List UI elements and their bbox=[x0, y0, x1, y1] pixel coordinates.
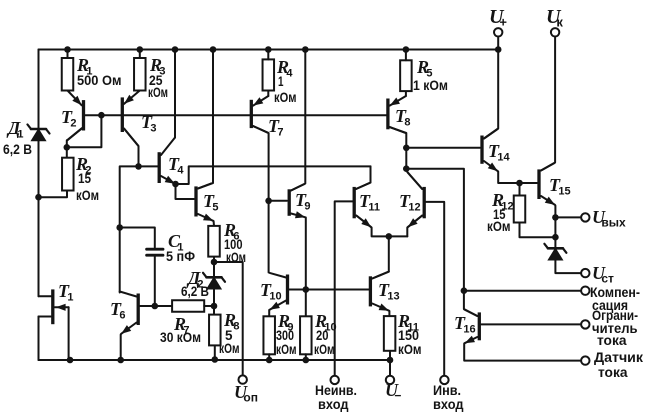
junction dot diff pair tail bbox=[386, 233, 393, 240]
terminal Uk bbox=[551, 28, 559, 36]
terminal current limiter bbox=[581, 320, 589, 328]
transistor T7 bbox=[251, 96, 268, 133]
svg-text:+: + bbox=[499, 15, 507, 30]
junction dot T4 emitter node bbox=[172, 181, 179, 188]
wire T4 base node to T6 collector branch bbox=[120, 166, 158, 292]
svg-text:к: к bbox=[556, 15, 563, 30]
svg-text:1: 1 bbox=[67, 292, 73, 304]
svg-text:тока: тока bbox=[598, 364, 628, 380]
wire T4 collector to top rail bbox=[174, 50, 176, 138]
wire T9 emitter down to R10, with T10 base tap bbox=[305, 218, 307, 317]
wire R12 top lead bbox=[519, 183, 521, 196]
label R4 value bbox=[274, 57, 297, 105]
svg-text:кОм: кОм bbox=[219, 340, 240, 356]
label R9 value bbox=[276, 311, 297, 357]
wire T7 collector down to T10 collector bbox=[253, 126, 269, 273]
label Uk terminal bbox=[546, 6, 563, 30]
wire T9 collector to top rail bbox=[291, 50, 305, 191]
label R6 value bbox=[223, 220, 246, 265]
wire T3 collector down to T4 base node bbox=[124, 129, 139, 167]
resistor R2 bbox=[62, 158, 74, 191]
label T4 bbox=[168, 154, 184, 177]
wire T4 emitter node to second stage bus bbox=[176, 166, 371, 184]
label T8 bbox=[395, 106, 410, 129]
wire R12 bottom to T15 emitter chain bbox=[520, 223, 556, 238]
junction dot T9 base bbox=[265, 198, 272, 205]
svg-text:30 кОм: 30 кОм bbox=[160, 329, 201, 345]
wire bottom bus bbox=[39, 359, 391, 361]
junction dots on top rail bbox=[64, 46, 501, 53]
transistor T4 bbox=[159, 138, 175, 184]
junction dot compensation tap bbox=[461, 287, 468, 294]
svg-text:вых: вых bbox=[601, 216, 626, 230]
wire R4 top lead bbox=[267, 50, 269, 60]
terminal Uop bbox=[239, 375, 247, 383]
svg-text:16: 16 bbox=[463, 324, 475, 336]
wire compensation node to terminal bbox=[464, 290, 581, 292]
label compensation terminal bbox=[590, 284, 640, 313]
wire T10 emitter to R9 top bbox=[268, 310, 270, 316]
transistor T3 bbox=[122, 91, 140, 146]
label T14 bbox=[488, 141, 510, 164]
label T1 bbox=[58, 281, 73, 304]
svg-text:5: 5 bbox=[212, 202, 218, 214]
zener diode D2 bbox=[203, 273, 225, 289]
resistor R5 bbox=[400, 60, 412, 91]
label inverting input terminal bbox=[433, 382, 464, 412]
label T16 bbox=[454, 313, 476, 336]
transistor T15 bbox=[539, 163, 555, 205]
wire R1 top lead bbox=[67, 50, 69, 59]
transistor T11 bbox=[354, 183, 371, 227]
wire T10 base to T13 base bbox=[289, 289, 369, 291]
wire base bus T2-T3-T7-T8 bbox=[84, 114, 388, 116]
terminal U- bbox=[386, 376, 394, 384]
wire left rail from top rail to zener D1 and T1 drain bbox=[38, 50, 40, 297]
svg-text:кОм: кОм bbox=[274, 89, 297, 105]
terminal noninverting input bbox=[331, 376, 339, 384]
resistor R8 bbox=[209, 315, 221, 346]
svg-text:8: 8 bbox=[404, 117, 410, 129]
svg-text:1: 1 bbox=[278, 73, 284, 89]
label T10 bbox=[260, 280, 282, 303]
wire zener D3 anode to Ust terminal bbox=[555, 259, 580, 273]
label R3 value bbox=[148, 55, 168, 100]
svg-text:Датчик: Датчик bbox=[594, 349, 644, 365]
resistor R12 bbox=[514, 196, 526, 223]
svg-text:500 Ом: 500 Ом bbox=[77, 72, 122, 88]
resistor R1 bbox=[62, 58, 74, 91]
svg-text:тока: тока bbox=[597, 332, 627, 348]
wire R5 bottom to T8 emitter bbox=[405, 91, 407, 96]
label T2 bbox=[61, 107, 76, 130]
svg-text:6,2 В: 6,2 В bbox=[3, 141, 32, 157]
wire T16 base to current limiter terminal bbox=[481, 323, 581, 325]
svg-text:вход: вход bbox=[433, 396, 464, 412]
label R5 value bbox=[413, 57, 448, 93]
transistor T12 bbox=[408, 172, 425, 227]
wire U+ terminal to top rail and T14 collector bbox=[484, 37, 498, 139]
wire C1 top tap bbox=[120, 228, 155, 248]
transistor T14 bbox=[482, 129, 498, 171]
wire R6 bottom node to Uop output stem bbox=[214, 262, 243, 375]
terminal Uvyh bbox=[581, 213, 589, 221]
junction dot C1 bottom T6 base bbox=[152, 303, 159, 310]
svg-text:1 кОм: 1 кОм bbox=[413, 77, 448, 93]
wire T12 emitter to tail node bbox=[407, 216, 422, 237]
junction dots on bottom bus bbox=[67, 356, 394, 363]
svg-text:13: 13 bbox=[387, 291, 399, 303]
wire T8 collector node to T14 base bbox=[406, 147, 480, 149]
label U+ terminal bbox=[489, 6, 507, 30]
junction dot R6 bottom bbox=[211, 259, 218, 266]
terminal compensation bbox=[581, 287, 589, 295]
svg-text:14: 14 bbox=[497, 152, 510, 164]
junction dot T10 base bbox=[303, 286, 310, 293]
label Uop terminal bbox=[234, 382, 258, 405]
svg-text:кОм: кОм bbox=[76, 187, 99, 203]
wire T13 emitter to R11 top bbox=[388, 311, 390, 316]
label T3 bbox=[141, 112, 156, 135]
resistor R10 bbox=[300, 316, 312, 354]
wire Uvyh output bbox=[555, 216, 580, 218]
wire left rail lower part: T1 source to bottom bus bbox=[39, 317, 71, 361]
wire T15 emitter chain down to zener D3 and Ust bbox=[554, 206, 556, 249]
wire T6 base node to R7 left bbox=[155, 305, 172, 307]
label U- terminal bbox=[385, 380, 401, 403]
label T5 bbox=[203, 191, 218, 214]
junction dot T2 collector R2 bbox=[64, 144, 71, 151]
terminal current sense bbox=[581, 356, 589, 364]
svg-text:4: 4 bbox=[286, 68, 293, 80]
junction dot R12 bottom join bbox=[552, 234, 559, 241]
junction dot R12 top bbox=[516, 180, 523, 187]
svg-text:кОм: кОм bbox=[314, 341, 335, 357]
svg-text:12: 12 bbox=[408, 202, 420, 214]
label T6 bbox=[110, 299, 125, 322]
label R11 value bbox=[397, 311, 422, 357]
wire T1 gate lead to bottom bus bbox=[68, 307, 70, 360]
svg-text:6: 6 bbox=[119, 310, 125, 322]
label Uvyh terminal bbox=[592, 207, 626, 230]
wire T11 base to noninverting input bbox=[335, 201, 353, 375]
label R7 value bbox=[160, 314, 201, 345]
svg-text:оп: оп bbox=[243, 391, 258, 405]
svg-text:3: 3 bbox=[150, 123, 156, 135]
label D2 value bbox=[181, 268, 209, 299]
svg-text:7: 7 bbox=[277, 127, 283, 139]
label T11 bbox=[359, 191, 380, 214]
wire T14 emitter to T15 base with R12 tap bbox=[498, 172, 537, 184]
wire tail node down to T13 collector bbox=[372, 236, 389, 278]
transistor T1 field-effect bbox=[39, 289, 69, 324]
label R8 value bbox=[219, 310, 240, 356]
junction dot R2 to rail bbox=[35, 194, 42, 201]
svg-text:−: − bbox=[394, 389, 401, 403]
wire R6 bottom to zener D2 bbox=[213, 257, 215, 277]
svg-text:кОм: кОм bbox=[398, 341, 422, 357]
transistor T2 bbox=[67, 91, 83, 141]
capacitor C1 bbox=[147, 249, 163, 255]
wire second stage bus down to T11 collector bbox=[356, 166, 371, 189]
transistor T13 bbox=[370, 272, 389, 311]
svg-text:2: 2 bbox=[70, 118, 76, 130]
terminal U+ bbox=[494, 28, 502, 36]
wire T6 emitter to bottom bus bbox=[120, 335, 122, 361]
svg-text:кОм: кОм bbox=[226, 249, 246, 265]
wire R11 bottom node to U- terminal bbox=[389, 351, 391, 376]
junction dot T14 base bbox=[403, 145, 410, 152]
svg-text:6,2 В: 6,2 В bbox=[181, 283, 209, 299]
svg-text:4: 4 bbox=[177, 165, 184, 177]
wire T8 collector down with junctions bbox=[390, 127, 407, 169]
wire C1 bottom to T6 base node bbox=[140, 256, 155, 307]
svg-text:кОм: кОм bbox=[487, 218, 511, 234]
svg-text:11: 11 bbox=[368, 202, 380, 214]
svg-text:кОм: кОм bbox=[148, 84, 168, 100]
wire T8 collector node to T16 collector branch bbox=[406, 169, 477, 316]
resistor R7 bbox=[172, 300, 214, 312]
transistor T16 bbox=[464, 310, 479, 344]
resistor R11 bbox=[384, 316, 396, 351]
label T13 bbox=[378, 280, 400, 303]
wire T11 emitter to tail node bbox=[356, 216, 407, 237]
terminal inverting input bbox=[440, 376, 448, 384]
wire R2 bottom to left rail bbox=[39, 191, 68, 198]
wire T12 base to inverting input bbox=[426, 202, 444, 376]
junction dot R7 right D2 anode R8 top bbox=[211, 303, 218, 310]
junction dot C1 tap bbox=[116, 224, 123, 231]
junction dot T4 base node bbox=[135, 163, 142, 170]
wire Uk terminal down to T15 collector bbox=[541, 37, 555, 171]
label Ust terminal bbox=[592, 263, 614, 286]
svg-text:кОм: кОм bbox=[276, 341, 297, 357]
wire zener D2 anode to R8 top and R7 right bbox=[213, 289, 215, 315]
transistor T5 bbox=[196, 184, 213, 221]
svg-text:15: 15 bbox=[558, 186, 570, 198]
zener diode D3 bbox=[544, 244, 566, 260]
svg-text:вход: вход bbox=[318, 396, 349, 412]
wire T4 emitter node to T5 base bbox=[176, 184, 195, 199]
label R2 value bbox=[75, 154, 99, 203]
label C1 value bbox=[166, 231, 195, 264]
wire R8 bottom to bottom bus bbox=[214, 345, 216, 359]
label current limiter terminal bbox=[592, 307, 638, 348]
label T7 bbox=[268, 116, 283, 139]
wire T5 emitter to R6 top bbox=[213, 221, 215, 226]
wire R10 bottom lead bbox=[305, 354, 307, 360]
label R12 value bbox=[487, 190, 514, 234]
label D1 value bbox=[3, 118, 32, 157]
svg-text:15: 15 bbox=[78, 170, 91, 186]
label T9 bbox=[295, 190, 310, 213]
transistor T10 bbox=[270, 273, 288, 310]
svg-text:8: 8 bbox=[233, 321, 239, 333]
transistor T8 bbox=[388, 96, 406, 133]
wire R3 top lead bbox=[139, 50, 141, 59]
junction dot Uvyh tap bbox=[552, 214, 559, 221]
transistor T9 bbox=[289, 184, 305, 218]
wire T9 base bbox=[269, 200, 287, 202]
wire T2 base to collector feedback bbox=[67, 115, 102, 147]
resistor R6 bbox=[208, 226, 220, 257]
wire R4 bottom to T7 emitter bbox=[267, 91, 269, 97]
svg-text:10: 10 bbox=[269, 291, 281, 303]
transistor T6 bbox=[120, 292, 139, 334]
resistor R9 bbox=[263, 316, 275, 354]
svg-text:1: 1 bbox=[17, 129, 23, 141]
terminal Ust bbox=[581, 269, 589, 277]
svg-text:9: 9 bbox=[304, 201, 310, 213]
wire T16 emitter to current sense terminal bbox=[464, 344, 581, 361]
label T15 bbox=[549, 175, 571, 198]
label noninverting input terminal bbox=[315, 382, 357, 412]
label current sense terminal bbox=[594, 349, 644, 380]
resistor R4 bbox=[263, 59, 275, 90]
wire T2 collector to R2 top bbox=[67, 128, 82, 158]
label R10 value bbox=[314, 311, 337, 357]
wire R5 top lead bbox=[405, 50, 407, 61]
wire top supply rail bbox=[39, 49, 499, 51]
junction dot T12 collector node bbox=[403, 165, 410, 172]
zener diode D1 bbox=[28, 125, 50, 141]
svg-text:5 пФ: 5 пФ bbox=[166, 248, 195, 264]
resistor R3 bbox=[134, 58, 146, 91]
label T12 bbox=[399, 191, 421, 214]
wire T5 collector to top rail bbox=[198, 50, 213, 189]
wire R9 bottom lead bbox=[268, 354, 270, 360]
wire T8 collector node to T12 collector bbox=[406, 169, 422, 189]
label R1 value bbox=[76, 55, 122, 88]
junction dot T2 base bbox=[98, 112, 105, 119]
